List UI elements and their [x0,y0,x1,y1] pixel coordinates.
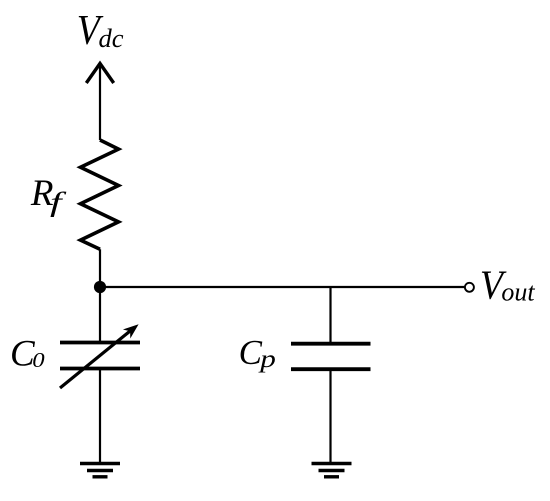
svg-text:0: 0 [32,349,45,372]
svg-text:p: p [258,346,276,373]
svg-text:C: C [239,333,263,372]
svg-text:dc: dc [99,23,124,53]
svg-text:out: out [501,277,535,306]
